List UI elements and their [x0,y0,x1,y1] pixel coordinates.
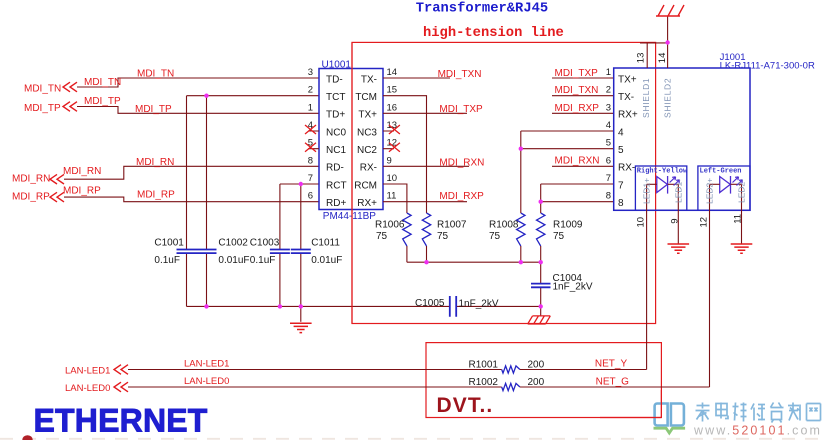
svg-text:MDI_TN: MDI_TN [84,77,121,88]
svg-text:75: 75 [437,231,449,242]
svg-text:C1003: C1003 [250,238,280,249]
svg-text:LK-RJ111-A71-300-0R: LK-RJ111-A71-300-0R [720,61,815,72]
svg-text:RX+: RX+ [357,198,377,209]
svg-text:2: 2 [606,85,611,96]
svg-text:16: 16 [387,102,398,113]
svg-text:U1001: U1001 [322,59,352,70]
svg-text:10: 10 [636,217,647,228]
svg-text:MDI_RXN: MDI_RXN [555,156,600,167]
svg-text:PM44-11BP: PM44-11BP [323,211,377,222]
svg-text:MDI_TXP: MDI_TXP [439,104,483,115]
svg-text:14: 14 [657,53,668,64]
svg-text:13: 13 [636,53,647,64]
svg-text:7: 7 [308,173,313,184]
svg-text:200: 200 [528,377,545,388]
svg-text:5: 5 [606,138,611,149]
svg-text:4: 4 [606,120,611,131]
svg-text:8: 8 [308,155,313,166]
svg-text:TX-: TX- [361,74,377,85]
svg-text:R1009: R1009 [553,220,583,231]
svg-text:TCT: TCT [326,92,345,103]
svg-text:12: 12 [699,217,710,228]
svg-text:9: 9 [670,219,681,224]
svg-text:RX-: RX- [360,163,377,174]
svg-text:MDI_RXP: MDI_RXP [555,103,600,114]
svg-text:MDI_RP: MDI_RP [63,186,101,197]
svg-text:Left-Green: Left-Green [700,167,742,175]
svg-text:MDI_TXN: MDI_TXN [555,85,599,96]
svg-text:C1005: C1005 [415,298,445,309]
svg-text:9: 9 [387,155,392,166]
svg-text:11: 11 [733,214,744,224]
svg-text:75: 75 [489,231,501,242]
svg-text:C1011: C1011 [311,238,340,249]
svg-text:RD-: RD- [326,163,344,174]
svg-text:TCM: TCM [355,92,377,103]
svg-text:TD+: TD+ [326,110,345,121]
svg-text:LED1-: LED1- [673,179,683,203]
svg-text:R1001: R1001 [469,359,499,370]
svg-text:1: 1 [308,102,313,113]
svg-text:TD-: TD- [326,74,343,85]
svg-text:NET_Y: NET_Y [595,358,628,369]
svg-text:7: 7 [618,180,624,191]
svg-text:MDI_RP: MDI_RP [12,192,50,203]
svg-text:TX+: TX+ [358,110,377,121]
svg-text:NC3: NC3 [357,127,377,138]
svg-text:8: 8 [618,198,624,209]
svg-text:200: 200 [528,359,545,370]
svg-text:2: 2 [308,85,313,96]
svg-text:14: 14 [387,67,398,78]
svg-text:LAN-LED0: LAN-LED0 [65,383,110,394]
svg-text:RX-: RX- [618,163,635,174]
svg-text:MDI_TXP: MDI_TXP [555,68,599,79]
svg-text:R1002: R1002 [469,377,499,388]
svg-text:www.520101.com: www.520101.com [693,423,822,437]
svg-text:5: 5 [618,145,624,156]
svg-text:MDI_TXN: MDI_TXN [438,69,482,80]
svg-text:11: 11 [387,191,397,202]
svg-text:SHIELD2: SHIELD2 [663,78,673,118]
svg-text:TX+: TX+ [618,74,637,85]
svg-text:3: 3 [308,67,313,78]
svg-text:LAN-LED1: LAN-LED1 [65,366,110,377]
svg-text:MDI_TN: MDI_TN [24,84,61,95]
svg-text:75: 75 [376,231,388,242]
svg-text:R1008: R1008 [489,220,519,231]
svg-text:MDI_RP: MDI_RP [137,189,175,200]
svg-text:6: 6 [606,155,611,166]
svg-text:1nF_2kV: 1nF_2kV [459,298,499,309]
svg-text:1nF_2kV: 1nF_2kV [553,282,593,293]
svg-text:RX+: RX+ [618,110,638,121]
svg-text:1: 1 [606,67,611,78]
svg-text:MDI_RXP: MDI_RXP [439,191,484,202]
svg-text:Transformer&RJ45: Transformer&RJ45 [416,1,548,17]
svg-text:10: 10 [387,173,398,184]
svg-text:6: 6 [308,191,313,202]
svg-text:RCT: RCT [326,180,347,191]
svg-text:MDI_RXN: MDI_RXN [439,157,484,168]
svg-text:NC1: NC1 [326,145,346,156]
svg-text:4: 4 [618,127,624,138]
svg-text:15: 15 [387,85,398,96]
svg-text:MDI_TN: MDI_TN [137,69,174,80]
svg-text:MDI_RN: MDI_RN [136,157,174,168]
svg-text:0.01uF: 0.01uF [218,255,249,266]
svg-text:LAN-LED0: LAN-LED0 [184,376,229,387]
svg-text:MDI_TP: MDI_TP [135,104,172,115]
svg-text:TX-: TX- [618,92,634,103]
svg-text:MDI_RN: MDI_RN [63,166,101,177]
svg-text:R1006: R1006 [375,220,405,231]
svg-text:C1002: C1002 [218,238,248,249]
svg-text:LED1+: LED1+ [642,178,652,204]
svg-text:RD+: RD+ [326,198,346,209]
svg-text:RCM: RCM [354,180,377,191]
svg-text:LED2-: LED2- [736,179,746,203]
svg-text:LAN-LED1: LAN-LED1 [184,359,229,370]
svg-text:Right-Yellow: Right-Yellow [637,167,688,175]
svg-text:NC2: NC2 [357,145,377,156]
svg-text:MDI_RN: MDI_RN [12,174,50,185]
svg-text:0.01uF: 0.01uF [311,255,342,266]
svg-text:high-tension line: high-tension line [423,25,564,41]
svg-text:0.1uF: 0.1uF [154,255,180,266]
svg-text:7: 7 [606,173,611,184]
svg-text:ETHERNET: ETHERNET [34,402,208,438]
svg-text:8: 8 [606,191,611,202]
svg-text:NC0: NC0 [326,127,346,138]
svg-text:SHIELD1: SHIELD1 [641,78,651,118]
svg-text:MDI_TP: MDI_TP [84,96,121,107]
svg-text:3: 3 [606,102,611,113]
svg-text:LED2+: LED2+ [705,178,715,204]
svg-text:DVT..: DVT.. [437,394,494,417]
svg-text:R1007: R1007 [437,220,467,231]
svg-text:MDI_TP: MDI_TP [24,103,61,114]
svg-text:C1001: C1001 [154,238,184,249]
svg-text:75: 75 [553,231,565,242]
svg-text:0.1uF: 0.1uF [250,255,276,266]
svg-text:NET_G: NET_G [596,376,630,387]
